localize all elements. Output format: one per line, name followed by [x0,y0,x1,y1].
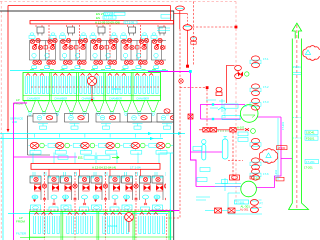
svg-text:1T-6: 1T-6 [263,172,269,176]
compartment partition A2 [77,73,79,101]
header note text top [96,12,125,20]
clean gas duct line train B [8,213,168,215]
svg-text:1T 1-09: 1T 1-09 [125,20,134,24]
slide gate valve V2 [54,142,82,154]
train B pulse dash lines [45,214,167,240]
valve row drops [33,153,159,164]
svg-text:1SD41: 1SD41 [108,224,118,228]
skid cyan ticks [212,103,214,105]
magenta filter feed [191,151,223,153]
tube sheet line train B [30,236,174,238]
stem end square [186,65,189,68]
header drop 1 [48,169,50,176]
top cyan marks [157,28,170,31]
svg-text:1SD41: 1SD41 [293,65,301,69]
ash enclosure outline [28,116,174,155]
rotary airlock A2 [65,114,89,130]
svg-text:1T-201: 1T-201 [304,165,313,169]
stack feed label [277,146,288,150]
magenta branch line [14,156,78,158]
filter vessel [202,140,206,160]
border left dashed [0,2,2,240]
fan label box [235,200,251,208]
hopper pair A5 [133,101,159,116]
cloud 1 delta [305,50,310,54]
svg-text:1T 1-04: 1T 1-04 [130,165,141,169]
valve row connectors [35,134,161,138]
magenta ash drain line [14,103,28,240]
svg-text:ES: ES [96,16,100,20]
isolation valve D12 [252,175,260,180]
instrument air header line [8,6,171,131]
isolation valve D11 [252,169,260,174]
dp instrument circle [87,76,96,102]
slide gate valve V4 [104,142,132,154]
valve D11 label [250,173,261,177]
outlet instrument 2 [240,207,262,213]
filter bags compartment A2 [53,76,77,94]
compartment partition A4 [131,73,133,101]
cyan riser left edge [2,134,4,240]
rotary airlock A4 [128,114,152,130]
magenta spur bottom [150,210,180,212]
receiver outlet dashed [228,160,243,162]
filter bags compartment A4 [107,76,131,94]
pulse valve module M2-3 [91,172,120,213]
filter bags compartment B1 [34,216,60,234]
bag cap marks A2 [53,74,71,76]
damper branch dashed [186,14,188,25]
bag cap marks B1 [35,213,53,215]
svg-text:1SD41: 1SD41 [112,87,122,91]
red vert from header to rect [170,6,172,21]
svg-text:A 12-09 52-09 (09): A 12-09 52-09 (09) [95,21,120,25]
pulse valve module M1-1 [29,25,57,70]
compartment enclosure train A [23,73,161,101]
svg-text:1T-FD: 1T-FD [278,146,286,150]
svg-text:FD101: FD101 [306,136,315,140]
stem valve [190,37,196,45]
test port column [277,118,279,180]
hopper pair A1 [24,101,50,116]
top module row [29,25,179,70]
air header drop arrow [7,129,10,132]
clean gas duct line train A [10,70,168,72]
svg-text:1A-105: 1A-105 [223,109,227,118]
receiver vessel [222,136,228,159]
hopper pair A2 [51,101,77,116]
stack damper oval [176,6,185,11]
isolation valve D8 [252,144,260,149]
PRV valve [216,87,222,95]
outlet plenum damper [164,109,170,115]
border top dashed [0,1,236,3]
PCV green dot [245,72,249,76]
stack sample marks [293,118,301,139]
solenoid box [188,114,193,119]
train B dp dashed line [29,209,172,211]
pulse valve module M2-2 [61,172,90,213]
slide gate valve V1 [29,142,57,154]
purge fan small [251,129,256,134]
svg-text:1T-202: 1T-202 [274,169,278,178]
signal dashed horizontal [180,87,206,89]
filter bags compartment A3 [80,76,104,94]
revision cloud 1 [303,46,320,61]
hopper pair A4 [106,101,132,116]
svg-text:PT: PT [260,202,264,206]
header drop 3 [109,169,111,176]
valve D7 label [250,143,261,147]
pulse valve module M1-2 [60,25,88,70]
magenta stack feed [281,117,292,159]
svg-text:ES: ES [78,156,83,160]
magenta fan inlet [196,186,241,188]
valve D3 label [250,88,261,92]
svg-text:A 12-04 32-04 (4): A 12-04 32-04 (4) [92,165,116,169]
ID fan [215,178,256,197]
isolation valve D10 [252,164,260,169]
signal dashed vertical 1 [167,29,180,218]
stack exit arrow [292,23,301,38]
aux cyan labels [200,168,210,172]
mid note text [58,156,119,160]
isolation valve D9 [252,158,260,163]
isolation valve D4 [252,90,260,95]
dryer valves [199,128,249,132]
damper drop line [179,11,181,29]
hopper pair A3 [78,101,104,116]
discharge red box [276,177,284,181]
rotary airlock A1 [33,114,57,130]
revision cloud 2 [259,149,277,164]
ash line upper branch [0,133,185,135]
signal dashed vertical 3 [206,89,208,130]
PCV valve pair [235,65,242,78]
cyan tee mark [189,70,192,73]
filter bags compartment A1 [25,76,49,94]
isolation valve D2 [252,62,260,67]
svg-text:FROM: FROM [16,219,25,223]
pulse air header rect train B [31,164,160,170]
bottom module row [30,172,181,213]
bag cap marks A3 [81,74,99,76]
bag cap marks A4 [108,74,126,76]
svg-text:1T-3: 1T-3 [263,100,269,104]
damper column labels [244,57,269,176]
stack labels [305,130,318,140]
signal instrument circle [179,79,183,83]
dryer green dashes [218,130,229,132]
left service air text [10,98,23,124]
svg-text:1T-23: 1T-23 [105,12,112,16]
header drop 4 [140,169,142,176]
fan skid piping [196,197,214,211]
train B dp instrument [125,213,134,232]
bag cap marks B3 [104,213,122,215]
receiver drop [232,132,234,180]
stack outlet label low [304,160,319,170]
cyan riser right [169,153,171,240]
ash conveying line lower [0,138,163,140]
slide gate valve V3 [79,142,107,154]
svg-text:CHAMBER: CHAMBER [136,96,149,100]
signal dashed vertical 0 [193,2,195,67]
svg-text:A-101: A-101 [237,126,245,130]
filter bags compartment B2 [67,216,93,234]
magenta air main [148,72,196,187]
border right dashed [235,2,237,203]
partition B3 [133,212,135,240]
compressed air pipe [227,65,235,103]
pulse air supply header rect [30,20,174,24]
pulse valve module M1-5 [151,25,179,70]
fan bearing [250,176,254,179]
fan inlet box [230,175,240,180]
fan skid outline [228,193,262,214]
damper branch line [174,13,188,15]
conveying air arrows [148,132,182,140]
valve D1 label [250,60,261,64]
compartment partition A3 [104,73,106,101]
header drop 5 [170,169,172,176]
isolation valve D7 [252,138,260,143]
partition B2 [97,212,99,240]
pulse valve module M1-4 [121,25,149,70]
signal junction [206,86,209,89]
cloud 2 delta [266,153,271,157]
header end instrument box [161,15,171,19]
differential pressure line dashed [31,86,160,88]
damper stem line [187,30,189,66]
svg-text:FILTER: FILTER [16,232,27,236]
bag cap marks A5 [135,74,153,76]
filter bags compartment B4 [139,216,165,234]
isolation valve D1 [252,56,260,61]
partition B4 [169,212,171,240]
svg-text:1T-1: 1T-1 [263,57,269,61]
svg-text:CHAMBER: CHAMBER [54,96,67,100]
svg-text:1SD41: 1SD41 [306,131,315,135]
bag cap marks B2 [68,213,86,215]
pulse valve module M2-1 [30,172,59,213]
compartment enclosure train B [30,212,174,240]
svg-text:AT: AT [244,104,248,108]
svg-text:1T 1-23: 1T 1-23 [104,16,114,20]
outlet instrument 1 [250,200,263,206]
slide gate valve V6 [155,142,183,154]
mid cyan label boxes [238,132,248,136]
rotary airlock A3 [96,114,120,130]
skid outlet magenta [258,116,282,118]
mid cyan branch [160,152,174,154]
junction square right [235,26,238,29]
stack test port [293,73,301,75]
partition B1 [61,212,63,240]
pulse valve module M2-5 [152,172,181,213]
bottom green branch [20,237,45,239]
svg-text:AIR: AIR [12,120,18,124]
bag cap marks B4 [140,213,158,215]
airlock row [33,114,181,130]
rotary airlock A5 [157,114,181,130]
valve D9 label [250,162,261,166]
stack shell [289,39,309,210]
pulse valve module M2-4 [122,172,151,213]
slide gate valve V5 [129,142,157,154]
svg-text:1T-201: 1T-201 [306,160,315,164]
valve D5 label [250,103,261,107]
svg-text:1T-2: 1T-2 [263,85,269,89]
fan discharge duct [257,159,282,188]
compartment partition A1 [49,73,51,101]
bypass dashed to border [192,26,236,28]
bottom left LP text [16,216,27,236]
drain valve pair [215,208,241,213]
bypass damper oval [183,25,192,31]
header drop 2 [79,169,81,176]
filter bags compartment B3 [103,216,129,234]
svg-text:1T-201: 1T-201 [281,121,285,130]
compressor piping [206,99,240,120]
filter bags compartment A5 [134,76,158,94]
PCV bowtie [238,72,243,77]
tube sheet line train A [23,95,161,97]
bag cap marks A1 [26,74,44,76]
svg-text:CHAMBER: CHAMBER [109,96,122,100]
isolation valve D5 [252,98,260,103]
purge label box [193,147,202,151]
isolation valve D6 [252,105,260,110]
stack centerline [296,25,298,209]
pulse valve module M1-3 [90,25,118,70]
isolation valve D3 [252,84,260,89]
svg-text:AL-301: AL-301 [240,207,249,211]
compressor skid boundary [201,105,246,120]
svg-text:CHAMBER: CHAMBER [27,96,40,100]
air compressor [240,105,258,123]
duct header black line [0,11,174,240]
